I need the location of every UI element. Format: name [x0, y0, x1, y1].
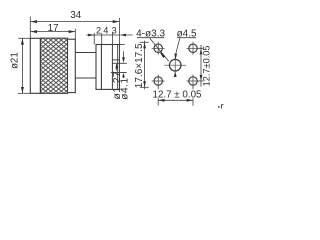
arrowheads [21, 20, 126, 93]
hole bottom-right [189, 77, 197, 85]
svg-text:17: 17 [48, 23, 59, 34]
arrow 17 left [31, 30, 37, 33]
arrow leader 4.5 lower (points up, tip at center hole bottom) [174, 71, 177, 77]
pin top line [112, 59, 119, 61]
svg-text:ø21: ø21 [10, 52, 21, 69]
chain left outside arrow [88, 34, 94, 37]
left extension line (up from nose) [29, 17, 31, 39]
collar (smooth right part of nut) [68, 39, 76, 92]
svg-text:ø4.5: ø4.5 [177, 28, 197, 39]
knurled nut body [40, 38, 67, 93]
flange right edge [100, 45, 102, 90]
svg-text:4: 4 [103, 26, 108, 36]
rear inner face line [117, 45, 119, 90]
underline 4-dia3.3 [137, 37, 164, 39]
dia21 top arrow [21, 39, 24, 45]
bottom dim 12.7 line [158, 99, 193, 101]
svg-text:34: 34 [70, 10, 81, 21]
right dim 12.7 line [200, 45, 202, 87]
neck cylinder [75, 53, 96, 79]
top edge extension right [119, 44, 124, 46]
center hole dia4.5 [169, 59, 181, 71]
arrow right dim bottom [200, 75, 203, 81]
svg-text:2: 2 [96, 26, 101, 36]
ext bottom [140, 86, 149, 88]
svg-text:17.6×17.5: 17.6×17.5 [134, 43, 145, 88]
nose section rectangle [30, 38, 40, 93]
corner artifact mark [218, 104, 224, 108]
dia1.27 up arrow [115, 64, 118, 69]
underline dia4.5 [177, 37, 196, 39]
arrow leader 3.3 (points up-left, tip on TL hole edge) [160, 52, 165, 58]
arrow 17 right [69, 30, 75, 33]
hole top-left [154, 44, 162, 52]
arrow 34 left [31, 20, 37, 23]
bore extension line [111, 71, 127, 73]
chain dim line 2,4,3 [86, 34, 132, 36]
svg-text:4-ø3.3: 4-ø3.3 [136, 28, 165, 39]
arrow 17.6 bottom [143, 81, 146, 87]
dia4.1 down arrow [122, 57, 125, 63]
arrow 17.6 top [143, 43, 146, 49]
svg-text:12.7 ± 0.05: 12.7 ± 0.05 [153, 90, 203, 101]
right ext stubs [198, 48, 203, 81]
pin bottom / extension line [112, 62, 126, 64]
svg-text:3: 3 [112, 26, 117, 36]
chain extension ticks [93, 33, 95, 45]
hole bottom-left [154, 77, 162, 85]
arrow leader 4.5 upper (points down, tip at center hole top) [174, 53, 177, 59]
dim 17.6x17.5 line [144, 41, 146, 90]
dia4.1 dim line upper [123, 51, 125, 60]
dim 34 line [30, 21, 119, 23]
bottom ext stubs [158, 87, 193, 106]
arrow bottom dim right [187, 99, 193, 102]
dia21 bottom arrow [21, 87, 24, 93]
right extension line (rear face up) [118, 18, 120, 45]
dia 21 dim line [21, 38, 23, 93]
leader dia4.5 [176, 38, 180, 53]
arrow bottom dim left [159, 99, 165, 102]
dia21 top extension [18, 37, 30, 39]
hole top-right [189, 44, 197, 52]
extension for 17 [74, 29, 76, 40]
chain right outside arrow [120, 34, 126, 37]
internal edge [111, 45, 113, 90]
dia21 bottom extension [18, 92, 31, 94]
svg-text:ø4.1: ø4.1 [120, 77, 131, 99]
arrow 34 right [113, 20, 119, 23]
arrow right dim top [200, 49, 203, 55]
dim 17 line [30, 31, 75, 33]
dia4.1 up arrow [122, 73, 125, 78]
dia4.1 dim line lower [123, 75, 125, 78]
ext top [140, 41, 149, 43]
svg-text:12.7±0.05: 12.7±0.05 [202, 45, 212, 86]
leader 4-dia3.3 [150, 38, 169, 61]
flange + rear body outline [96, 45, 119, 90]
dia1.27 arrow stem [116, 64, 118, 71]
